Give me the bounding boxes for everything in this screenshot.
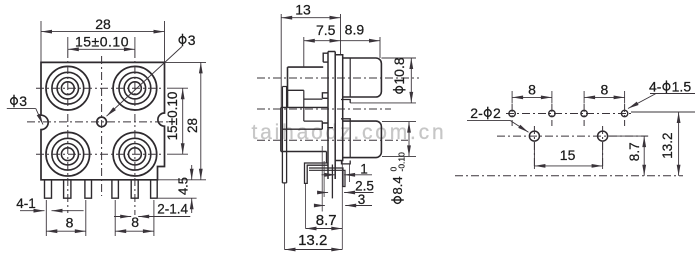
svg-text:1.5: 1.5 [672,79,692,95]
svg-text:1: 1 [360,161,368,176]
svg-text:3: 3 [188,32,196,48]
svg-text:7.5: 7.5 [316,22,336,38]
svg-text:28: 28 [95,16,111,32]
svg-text:2-1.4: 2-1.4 [157,202,188,217]
svg-text:10.8: 10.8 [391,57,407,84]
svg-text:8.7: 8.7 [316,212,337,229]
svg-text:15: 15 [560,147,576,163]
svg-text:13: 13 [295,2,311,18]
svg-text:8: 8 [131,214,139,230]
svg-text:8: 8 [66,215,74,231]
svg-text:8.4: 8.4 [390,176,405,194]
svg-text:15±0.10: 15±0.10 [165,92,180,141]
svg-text:2-: 2- [470,105,483,121]
svg-text:8: 8 [528,82,536,98]
svg-text:4-1: 4-1 [16,196,36,211]
svg-text:8.7: 8.7 [627,142,642,161]
svg-text:4-: 4- [649,79,662,95]
svg-text:28: 28 [185,118,200,133]
svg-text:-0.10: -0.10 [397,152,407,172]
svg-text:3: 3 [19,93,27,109]
svg-text:3: 3 [358,192,366,207]
svg-text:4.5: 4.5 [175,177,190,195]
svg-text:13.2: 13.2 [298,232,327,249]
svg-text:2: 2 [493,105,501,121]
svg-text:15±0.10: 15±0.10 [75,33,129,49]
svg-text:13.2: 13.2 [660,132,675,158]
svg-text:8: 8 [601,82,609,98]
svg-text:8.9: 8.9 [345,22,365,38]
